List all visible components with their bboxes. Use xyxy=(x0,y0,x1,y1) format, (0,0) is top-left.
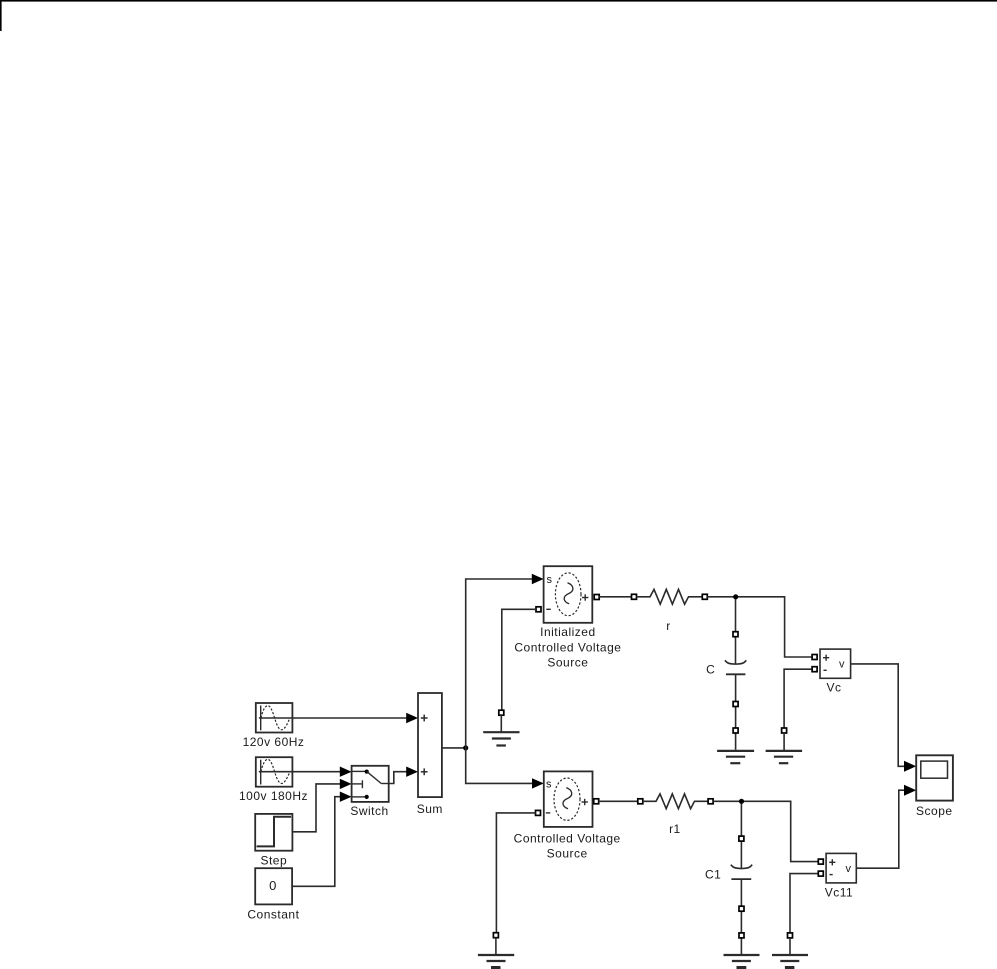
port square capacitor C top xyxy=(733,632,738,637)
source block 100v 180Hz xyxy=(256,757,293,787)
controlled voltage source U2 Controlled Voltage Source xyxy=(544,771,593,827)
port square ground G6 xyxy=(788,933,793,938)
wire Step to Switch input 2 xyxy=(292,779,351,832)
controlled voltage source U1 Initialized Controlled Voltage Source xyxy=(544,566,593,623)
svg-text:120v 60Hz: 120v 60Hz xyxy=(243,735,305,749)
node B junction xyxy=(733,594,738,599)
node C junction xyxy=(739,799,744,804)
port square ground G5 xyxy=(739,933,744,938)
wire Vc11 minus to ground G6 xyxy=(790,874,818,933)
port square resistor r left xyxy=(632,594,637,599)
ground G6 xyxy=(772,938,808,968)
wire Sum output to node A xyxy=(442,747,466,749)
svg-text:r: r xyxy=(666,619,671,633)
wire Vc minus to ground G3 xyxy=(784,669,812,728)
port square resistor r1 right xyxy=(708,799,713,804)
capacitor C xyxy=(725,599,746,750)
svg-text:Vc: Vc xyxy=(826,681,841,695)
svg-text:Source: Source xyxy=(547,847,588,861)
step source Step xyxy=(255,814,292,851)
svg-text:0: 0 xyxy=(269,878,276,893)
svg-text:100v 180Hz: 100v 180Hz xyxy=(239,789,308,803)
svg-text:Scope: Scope xyxy=(916,804,953,818)
switch block Switch xyxy=(351,766,388,802)
svg-text:C1: C1 xyxy=(705,868,721,882)
svg-text:Controlled Voltage: Controlled Voltage xyxy=(514,641,621,655)
ground G2 xyxy=(717,751,754,763)
wire CVS2 output to resistor r1 xyxy=(599,800,638,802)
port square CVS1 output + xyxy=(594,595,599,600)
constant block Constant xyxy=(255,868,292,904)
svg-text:s: s xyxy=(546,778,552,790)
wire 120v60Hz to Sum input 1 xyxy=(292,713,418,723)
port square capacitor C1 bottom xyxy=(739,906,744,911)
window frame top edge xyxy=(0,0,997,2)
wire CVS1 minus to ground G1 xyxy=(502,609,536,710)
scope Scope xyxy=(916,755,953,800)
ground G4 xyxy=(478,938,514,968)
svg-text:r1: r1 xyxy=(669,822,681,836)
port square Vc minus xyxy=(812,667,817,672)
wire Vc to Scope input 1 xyxy=(851,664,917,772)
svg-text:Step: Step xyxy=(260,854,287,868)
ground G3 xyxy=(766,733,803,763)
port square capacitor C bottom xyxy=(733,702,738,707)
sum block Sum xyxy=(418,693,442,797)
voltage measurement Vc xyxy=(820,649,851,678)
port square Vc11 minus xyxy=(818,871,823,876)
svg-text:Constant: Constant xyxy=(247,907,299,921)
port square ground G2 xyxy=(733,728,738,733)
wire Vc11 to Scope input 2 xyxy=(856,785,916,869)
resistor r1 xyxy=(643,794,709,809)
port square resistor r right xyxy=(702,594,707,599)
port square CVS2 output + xyxy=(594,799,599,804)
svg-text:v: v xyxy=(839,659,845,671)
wire node A to CVS1 s input xyxy=(466,574,544,748)
port square CVS2 minus xyxy=(536,810,541,815)
svg-text:Source: Source xyxy=(547,656,588,670)
port square Vc plus xyxy=(812,655,817,660)
wire Switch to Sum input 2 xyxy=(389,767,418,784)
wire resistor r to node B and Vc plus xyxy=(707,597,812,657)
svg-text:s: s xyxy=(547,574,553,586)
svg-text:Switch: Switch xyxy=(350,804,388,818)
port square ground G4 xyxy=(493,933,498,938)
wire Constant to Switch input 3 xyxy=(292,792,352,887)
ground G1 xyxy=(483,715,519,745)
ground G5 xyxy=(724,955,760,968)
wire 100v180Hz to Switch input 1 xyxy=(292,767,351,777)
port square ground G3 xyxy=(782,728,787,733)
svg-text:v: v xyxy=(845,863,851,875)
voltage measurement Vc11 xyxy=(826,853,856,883)
source block 120v 60Hz xyxy=(256,703,293,733)
wire node A to CVS2 s input xyxy=(466,748,544,789)
port square ground G1 xyxy=(499,710,504,715)
port square capacitor C1 top xyxy=(739,836,744,841)
svg-text:C: C xyxy=(706,663,715,677)
port square resistor r1 left xyxy=(638,799,643,804)
svg-text:Controlled Voltage: Controlled Voltage xyxy=(514,831,621,845)
wire CVS2 minus to ground G4 xyxy=(496,813,535,933)
port square CVS1 minus xyxy=(536,607,541,612)
svg-text:Initialized: Initialized xyxy=(540,625,596,639)
capacitor C1 xyxy=(731,804,752,955)
resistor r xyxy=(636,589,702,604)
wire resistor r1 to node C and Vc11 plus xyxy=(713,801,818,861)
svg-text:Sum: Sum xyxy=(417,802,443,816)
svg-text:Vc11: Vc11 xyxy=(825,886,853,900)
wire CVS1 output to resistor r xyxy=(599,596,632,598)
port square Vc11 plus xyxy=(818,859,823,864)
node A junction xyxy=(463,745,468,750)
